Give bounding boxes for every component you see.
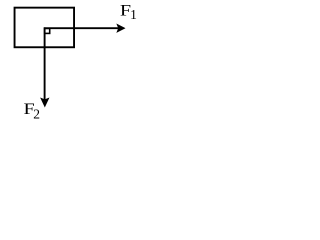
arrowhead F1 (117, 24, 125, 32)
right-angle marker (45, 28, 50, 33)
svg-text:2: 2 (33, 106, 40, 121)
arrowhead F2 (41, 98, 49, 107)
svg-text:1: 1 (130, 7, 137, 22)
wire F2 line (44, 27, 46, 100)
box (rectangle body) (15, 8, 75, 48)
wire F1 line (44, 27, 119, 29)
